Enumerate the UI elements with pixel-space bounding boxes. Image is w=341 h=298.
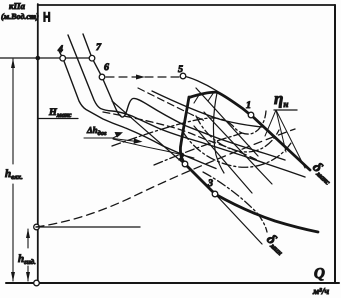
svg-text:Нмакс: Нмакс xyxy=(48,107,71,119)
svg-text:δмакс: δмакс xyxy=(309,160,336,187)
eta pointer line 1 xyxy=(265,110,276,136)
svg-text:2: 2 xyxy=(178,152,184,163)
dashed guide line from 6 to 5 with arrow xyxy=(106,76,180,78)
short stub line on top edge a xyxy=(194,95,199,103)
horizontal level line through points 4 and 7 xyxy=(0,57,92,59)
delta line minimum (thin lower part beyond 3) xyxy=(217,196,262,244)
efficiency contour middle hook (dash-dot) xyxy=(196,116,279,152)
pump curve through 7 and 6 xyxy=(83,34,285,160)
svg-text:δмин: δмин xyxy=(263,232,288,257)
thin pump curve through 5 xyxy=(183,76,217,91)
point 6 xyxy=(99,74,105,80)
label delta_min (rotated) xyxy=(263,232,288,257)
svg-text:5: 5 xyxy=(178,64,183,75)
dashed diagonal line near field left xyxy=(138,88,205,121)
dashed pump curve (valley and hump) xyxy=(103,112,257,160)
axis H (left vertical axis) xyxy=(37,4,39,283)
svg-text:Δhдог: Δhдог xyxy=(86,125,107,137)
thick boundary: segment 2 to 3 xyxy=(185,164,215,194)
svg-text:hелх.: hелх. xyxy=(5,168,23,181)
svg-text:3: 3 xyxy=(207,178,213,189)
point 2 xyxy=(182,161,188,167)
svg-text:hгид.: hгид. xyxy=(18,253,36,266)
pointer arrow 1 of dH xyxy=(113,135,120,139)
label delta_maks (rotated) xyxy=(309,160,336,187)
svg-text:4: 4 xyxy=(57,44,63,55)
intermediate delta line a xyxy=(196,88,258,156)
svg-text:Н: Н xyxy=(43,10,51,25)
system resistance curve (dashed, rising) xyxy=(36,129,295,227)
frame right edge xyxy=(334,5,336,283)
eta pointer line 3 xyxy=(276,110,305,168)
intermediate delta line b xyxy=(194,126,252,193)
pump curve 4 (leftmost, steep top then gentle) xyxy=(59,50,217,169)
svg-text:ηн: ηн xyxy=(274,89,288,109)
point 5 xyxy=(180,73,186,79)
thick boundary: bottom curve from 3 to right xyxy=(215,194,318,232)
pointer arrow 2 of dH xyxy=(113,139,135,142)
short stub line on top edge b xyxy=(208,94,213,102)
eta pointer line 2 xyxy=(276,110,286,152)
point 4 xyxy=(60,55,66,61)
svg-text:кПа: кПа xyxy=(9,1,26,11)
dimension line h_full (left, full height) xyxy=(11,59,15,282)
intermediate delta line c xyxy=(204,112,272,184)
horizontal static-head line xyxy=(36,226,140,228)
axis Q (bottom line) xyxy=(6,282,339,284)
svg-text:1: 1 xyxy=(246,100,251,111)
svg-text:7: 7 xyxy=(96,42,102,53)
node circle on axis at static head level xyxy=(34,224,40,230)
thick boundary: top edge to 1 xyxy=(189,92,252,116)
efficiency contour falling arc to lower right (dash-dot) xyxy=(203,172,267,232)
svg-text:(м.Вод.ст): (м.Вод.ст) xyxy=(1,12,39,21)
delta line minimum through 2 and 3 (thin upper part) xyxy=(112,101,183,163)
thick boundary: left curve down to 2 xyxy=(180,97,189,164)
dimension line h_gid (short, lower) xyxy=(26,229,30,282)
svg-text:Q: Q xyxy=(314,266,325,282)
efficiency contour outer hook (dash-dot) xyxy=(183,132,291,167)
node circle at axis bottom xyxy=(34,280,40,286)
point 3 xyxy=(212,191,218,197)
point 1 xyxy=(248,112,254,118)
thin curve inside field xyxy=(213,93,224,173)
svg-text:м³/ч: м³/ч xyxy=(312,286,329,296)
node dot at H max level on axis xyxy=(36,56,41,61)
thin upper pump curve xyxy=(152,91,262,127)
thin wedge line of dH pointer xyxy=(113,139,194,158)
thick boundary: delta max segment from 1 down right xyxy=(251,115,310,170)
frame top edge xyxy=(38,4,335,6)
efficiency contour rising arc lower left (dash-dot) xyxy=(154,133,242,165)
svg-text:6: 6 xyxy=(104,62,109,73)
efficiency contour inner hook (dash-dot) xyxy=(112,111,266,146)
point 7 xyxy=(89,55,95,61)
pump curve middle (steep top, valley, hump) xyxy=(68,35,305,177)
